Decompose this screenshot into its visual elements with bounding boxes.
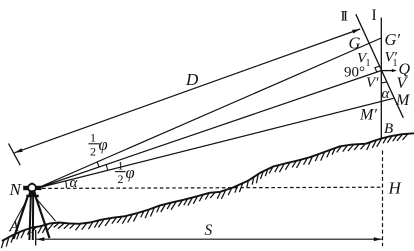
telescope circle	[28, 184, 36, 192]
svg-text:D: D	[185, 70, 199, 89]
telescope body	[23, 186, 28, 190]
svg-text:90°: 90°	[344, 65, 365, 81]
base plate	[26, 195, 38, 198]
svg-text:N: N	[9, 180, 23, 199]
staff line I (vertical)	[380, 18, 382, 139]
svg-text:S: S	[205, 222, 213, 239]
svg-text:φ: φ	[99, 135, 108, 154]
arc half-phi lower	[106, 165, 108, 171]
staff line II (tilted)	[356, 14, 404, 118]
D arrowhead right at G	[352, 29, 360, 34]
arrow Q (horizontal direction)	[381, 70, 393, 72]
sight line upper stadia N-G-G'	[38, 38, 382, 188]
instrument base	[28, 190, 36, 195]
sight line lower stadia N-M'-M	[38, 98, 394, 188]
dashed horizontal line NH	[42, 187, 383, 188]
terrain ground line	[2, 133, 414, 241]
tripod leg right	[36, 197, 50, 238]
theodolite tripod leg left	[14, 197, 28, 239]
svg-text:2: 2	[90, 145, 96, 159]
tripod leg mid-right	[32, 197, 34, 240]
svg-text:α: α	[70, 175, 79, 191]
arc alpha at staff	[381, 82, 386, 83]
telescope knob	[31, 183, 34, 186]
S terminator left	[35, 230, 37, 246]
sight line central N-V	[38, 71, 382, 189]
svg-text:G′: G′	[385, 30, 401, 49]
tripod brace right	[37, 200, 56, 222]
S dimension line	[36, 238, 382, 240]
svg-text:B: B	[384, 121, 393, 137]
svg-text:α: α	[382, 86, 391, 102]
S arrowhead left	[36, 237, 44, 241]
tripod leg mid-left	[29, 197, 30, 240]
S arrowhead right	[374, 237, 382, 241]
dashed vertical line BH	[382, 151, 384, 247]
tripod brace left	[10, 200, 28, 232]
svg-text:1: 1	[90, 131, 96, 145]
svg-text:H: H	[388, 179, 403, 198]
svg-text:Q: Q	[399, 61, 411, 78]
arc alpha at N	[65, 181, 68, 188]
svg-text:V′: V′	[366, 75, 379, 91]
arc half-phi upper	[97, 162, 99, 167]
terrain hatching	[1, 240, 3, 248]
svg-text:2: 2	[118, 172, 124, 186]
svg-text:I: I	[372, 7, 377, 24]
svg-text:M′: M′	[359, 107, 377, 124]
svg-text:φ: φ	[126, 163, 135, 182]
svg-text:1: 1	[118, 159, 124, 173]
svg-text:A: A	[9, 219, 20, 235]
svg-text:M: M	[395, 92, 411, 109]
dimension line D	[15, 29, 361, 153]
svg-text:1: 1	[393, 58, 398, 69]
svg-text:II: II	[341, 9, 348, 25]
right-angle square at V'	[375, 66, 380, 72]
D dimension end tick	[9, 144, 21, 166]
svg-text:1: 1	[366, 58, 371, 69]
D arrowhead left	[15, 148, 23, 153]
